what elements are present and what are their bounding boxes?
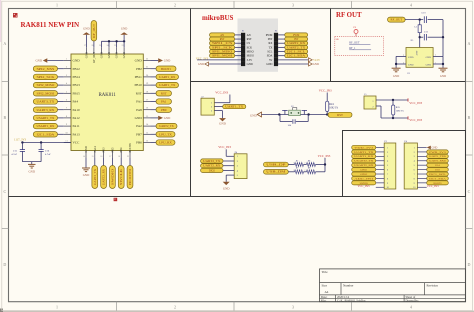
svg-text:SCK: SCK	[247, 46, 252, 49]
svg-text:PB10: PB10	[134, 83, 142, 87]
svg-text:1: 1	[293, 163, 294, 165]
svg-text:C:\E..\RAK811.SchDoc: C:\E..\RAK811.SchDoc	[337, 298, 366, 302]
svg-text:GND: GND	[393, 74, 399, 78]
svg-text:RX: RX	[269, 42, 273, 45]
svg-text:RF_OUT: RF_OUT	[349, 41, 360, 44]
svg-text:GND: GND	[83, 27, 90, 31]
svg-text:mikroBUS: mikroBUS	[202, 15, 233, 22]
svg-text:SPI1_MISO: SPI1_MISO	[212, 50, 232, 53]
svg-text:GPIO2: GPIO2	[360, 173, 368, 176]
svg-text:I2C1_SDA: I2C1_SDA	[37, 132, 56, 136]
svg-text:GND: GND	[100, 52, 104, 58]
svg-text:MISO: MISO	[247, 51, 254, 54]
svg-text:Title: Title	[322, 270, 329, 274]
svg-text:22: 22	[122, 45, 124, 47]
svg-text:1: 1	[414, 147, 415, 149]
svg-text:GND: GND	[84, 52, 88, 58]
svg-text:GND: GND	[135, 59, 143, 63]
svg-text:GND: GND	[219, 122, 226, 126]
svg-text:2: 2	[387, 152, 388, 154]
svg-text:RST: RST	[247, 38, 252, 41]
svg-text:PB4: PB4	[119, 147, 123, 153]
svg-text:PB2: PB2	[136, 67, 142, 71]
svg-text:UART1_TXD: UART1_TXD	[429, 155, 446, 158]
svg-text:A4: A4	[325, 290, 329, 294]
svg-text:SPI2_SCK: SPI2_SCK	[37, 75, 56, 79]
svg-text:4: 4	[410, 304, 412, 309]
svg-text:USART1_TX: USART1_TX	[37, 116, 56, 120]
svg-text:GND: GND	[313, 63, 319, 66]
svg-text:GND: GND	[164, 116, 171, 120]
svg-text:GND: GND	[250, 113, 257, 117]
svg-text:RF_OUT: RF_OUT	[92, 24, 96, 38]
svg-text:10K/1%: 10K/1%	[396, 109, 404, 112]
svg-text:RST: RST	[220, 38, 225, 41]
svg-text:USB_DP: USB_DP	[266, 163, 286, 166]
svg-text:PB5: PB5	[110, 147, 114, 153]
svg-text:B: B	[468, 115, 471, 120]
svg-text:PA8: PA8	[136, 108, 142, 112]
svg-text:Revision: Revision	[427, 283, 439, 287]
svg-text:RF OUT: RF OUT	[336, 12, 362, 19]
svg-text:25: 25	[99, 45, 101, 47]
svg-text:PWM: PWM	[293, 34, 300, 37]
svg-text:VCC_IN3: VCC_IN3	[409, 118, 422, 122]
svg-text:UART3_RX: UART3_RX	[37, 108, 56, 112]
svg-text:I2C1_SCL: I2C1_SCL	[287, 50, 306, 53]
svg-text:PA12: PA12	[73, 116, 81, 120]
svg-text:GND: GND	[73, 59, 81, 63]
svg-text:Drawn By:: Drawn By:	[406, 298, 419, 302]
svg-text:PB0: PB0	[161, 108, 167, 112]
svg-text:3: 3	[292, 304, 294, 309]
svg-text:23: 23	[114, 45, 116, 47]
svg-text:USB_DM: USB_DM	[266, 171, 286, 174]
svg-text:VCC: VCC	[73, 141, 81, 145]
svg-text:19: 19	[127, 156, 129, 158]
svg-text:2: 2	[304, 163, 305, 165]
svg-text:I2C1_SCL: I2C1_SCL	[429, 173, 446, 176]
svg-text:PWM: PWM	[266, 34, 273, 37]
svg-text:RAK811 NEW PIN: RAK811 NEW PIN	[21, 21, 80, 29]
svg-text:2: 2	[414, 152, 415, 154]
svg-text:RST: RST	[136, 91, 142, 95]
svg-text:18: 18	[118, 156, 120, 158]
svg-text:PA11: PA11	[73, 124, 80, 128]
svg-text:AN: AN	[220, 34, 224, 37]
svg-text:VDD_3V3: VDD_3V3	[354, 146, 374, 149]
svg-text:GND: GND	[135, 116, 143, 120]
svg-text:RF_1: RF_1	[349, 47, 356, 50]
svg-text:ADC_IN1: ADC_IN1	[354, 177, 374, 180]
svg-text:PA1: PA1	[161, 100, 167, 104]
svg-text:4: 4	[410, 2, 412, 7]
svg-text:9: 9	[414, 183, 415, 185]
svg-text:UART2_RX: UART2_RX	[203, 165, 220, 168]
svg-text:SPI2_NSS: SPI2_NSS	[37, 67, 55, 71]
svg-text:VCC_IN3: VCC_IN3	[409, 101, 422, 105]
svg-text:1: 1	[56, 2, 58, 7]
svg-text:GND: GND	[29, 170, 36, 174]
svg-text:LPU_RX: LPU_RX	[159, 141, 172, 145]
svg-text:A: A	[3, 41, 6, 46]
svg-text:PA13: PA13	[73, 132, 81, 136]
svg-text:USART2_RX: USART2_RX	[354, 164, 373, 167]
svg-text:GND: GND	[440, 74, 446, 78]
svg-text:C: C	[3, 189, 6, 194]
svg-text:GND: GND	[426, 56, 432, 59]
svg-text:Number: Number	[343, 283, 354, 287]
svg-text:1117_3V3: 1117_3V3	[14, 137, 27, 141]
svg-text:UART2_TX: UART2_TX	[287, 46, 305, 49]
svg-text:3.3V: 3.3V	[247, 59, 253, 62]
svg-text:GND: GND	[266, 63, 272, 66]
svg-text:PB7: PB7	[136, 132, 142, 136]
svg-text:VCC_3V3: VCC_3V3	[196, 56, 209, 60]
svg-text:SPI2_MISO: SPI2_MISO	[37, 83, 56, 87]
svg-text:GND: GND	[198, 63, 204, 66]
svg-text:BOOT1: BOOT1	[161, 67, 171, 71]
svg-text:RAK811: RAK811	[99, 93, 117, 98]
svg-text:GND: GND	[121, 27, 128, 31]
svg-text:GND: GND	[107, 52, 111, 58]
svg-text:VCC_IN3: VCC_IN3	[218, 145, 231, 149]
svg-text:MOSI: MOSI	[247, 55, 254, 58]
svg-text:PA2: PA2	[136, 124, 142, 128]
svg-text:PB12: PB12	[73, 67, 81, 71]
svg-text:16: 16	[100, 156, 102, 158]
svg-text:2: 2	[174, 304, 176, 309]
svg-text:RST: RST	[161, 91, 167, 95]
svg-text:GND: GND	[432, 147, 438, 150]
svg-text:UART2_RX: UART2_RX	[102, 168, 106, 185]
svg-text:GND: GND	[83, 173, 90, 177]
svg-text:INT: INT	[294, 38, 299, 41]
svg-text:R24: R24	[329, 103, 334, 106]
svg-text:GND: GND	[164, 59, 171, 63]
svg-text:UART2_TX: UART2_TX	[159, 124, 174, 128]
svg-text:14: 14	[83, 156, 85, 158]
svg-text:VCC_IN3: VCC_IN3	[358, 184, 370, 188]
svg-text:SCL: SCL	[267, 51, 272, 54]
svg-text:UART1_RX: UART1_RX	[159, 75, 176, 79]
svg-text:GND: GND	[36, 59, 43, 63]
svg-text:10K/1%: 10K/1%	[329, 107, 338, 110]
svg-text:1: 1	[387, 147, 388, 149]
svg-text:SPI1_MOSI: SPI1_MOSI	[212, 55, 232, 58]
svg-text:DIO2: DIO2	[209, 169, 216, 172]
svg-text:17: 17	[109, 156, 111, 158]
svg-text:GND: GND	[408, 64, 414, 67]
svg-text:UART2_TX: UART2_TX	[93, 168, 97, 185]
svg-text:4.7uF: 4.7uF	[11, 153, 17, 156]
svg-text:GND: GND	[115, 52, 119, 58]
svg-text:UART1_RXD: UART1_RXD	[429, 160, 446, 163]
svg-text:B: B	[3, 115, 6, 120]
svg-text:SDA: SDA	[267, 55, 273, 58]
svg-text:RF_OUT: RF_OUT	[92, 52, 96, 63]
svg-text:PB14: PB14	[73, 75, 81, 79]
svg-text:LPU_TX: LPU_TX	[159, 132, 172, 136]
svg-text:TX: TX	[269, 46, 273, 49]
svg-text:4.7uF: 4.7uF	[45, 153, 51, 156]
svg-text:BOOT0: BOOT0	[128, 143, 132, 153]
svg-text:SPI1_CS: SPI1_CS	[212, 42, 233, 45]
svg-text:PA14: PA14	[93, 146, 97, 153]
svg-text:GND: GND	[223, 187, 230, 191]
svg-text:SPI1_SCK: SPI1_SCK	[212, 46, 232, 49]
svg-text:PA4: PA4	[73, 100, 79, 104]
svg-text:PWR_3V3: PWR_3V3	[429, 151, 447, 154]
svg-text:GND: GND	[426, 64, 432, 67]
svg-text:Size: Size	[322, 283, 328, 287]
svg-text:VCC_IN3: VCC_IN3	[318, 154, 331, 158]
svg-text:15: 15	[92, 156, 94, 158]
svg-text:PA10: PA10	[73, 108, 81, 112]
svg-text:D: D	[468, 262, 471, 267]
svg-text:C: C	[468, 189, 471, 194]
svg-text:VCC_IN3: VCC_IN3	[215, 90, 228, 94]
svg-text:1: 1	[293, 170, 294, 172]
svg-text:26: 26	[91, 45, 93, 47]
svg-text:PB15: PB15	[73, 91, 81, 95]
svg-text:USART2_TX: USART2_TX	[354, 160, 373, 163]
svg-text:VCC_IN3: VCC_IN3	[319, 88, 332, 92]
svg-text:SWDIO: SWDIO	[110, 169, 114, 185]
svg-text:UART1_TX: UART1_TX	[225, 106, 243, 109]
svg-text:5V: 5V	[269, 59, 272, 62]
svg-text:D: D	[3, 262, 6, 267]
svg-text:2: 2	[304, 170, 305, 172]
svg-text:ANT: ANT	[416, 50, 419, 56]
svg-text:USART1_RX: USART1_RX	[37, 124, 56, 128]
svg-text:UART1_RX: UART1_RX	[354, 155, 373, 158]
svg-text:GND: GND	[122, 52, 126, 58]
svg-text:UART3_TX: UART3_TX	[37, 100, 56, 104]
svg-text:GND: GND	[408, 56, 414, 59]
svg-text:SPI2_MOSI: SPI2_MOSI	[37, 91, 55, 95]
svg-text:GPIO1: GPIO1	[360, 169, 368, 172]
svg-text:GND: GND	[84, 146, 88, 152]
svg-text:3: 3	[292, 2, 294, 7]
svg-text:PB13: PB13	[73, 83, 81, 87]
svg-text:AN: AN	[247, 34, 251, 37]
svg-text:RST: RST	[337, 113, 343, 117]
svg-text:I2C1_SDA: I2C1_SDA	[287, 55, 305, 58]
svg-text:+4.5V: +4.5V	[313, 58, 321, 62]
svg-text:GND: GND	[247, 63, 253, 66]
svg-text:UART1_TX: UART1_TX	[354, 151, 373, 154]
svg-text:RF_OUT: RF_OUT	[391, 18, 403, 22]
svg-text:24: 24	[106, 45, 108, 47]
svg-text:1: 1	[56, 304, 58, 309]
svg-text:PA1: PA1	[136, 100, 142, 104]
svg-text:UART2_TX: UART2_TX	[203, 160, 220, 163]
svg-text:SWCLK: SWCLK	[119, 167, 123, 185]
svg-text:9: 9	[387, 183, 388, 185]
svg-text:INT: INT	[268, 38, 273, 41]
svg-text:PB6: PB6	[136, 141, 142, 145]
svg-text:BOOT0: BOOT0	[128, 168, 132, 185]
svg-text:File:: File:	[321, 298, 327, 302]
svg-text:I2C1_SDA: I2C1_SDA	[429, 177, 446, 180]
svg-text:PB3: PB3	[102, 147, 106, 153]
svg-text:27: 27	[84, 45, 86, 47]
svg-text:VCC_IN3: VCC_IN3	[427, 184, 439, 188]
svg-text:PB11: PB11	[135, 75, 143, 79]
svg-text:2: 2	[174, 2, 176, 7]
svg-text:A: A	[468, 41, 471, 46]
svg-text:CS: CS	[247, 42, 251, 45]
svg-text:UART2_RX: UART2_RX	[287, 42, 305, 45]
svg-text:UART1_TX: UART1_TX	[159, 83, 176, 87]
